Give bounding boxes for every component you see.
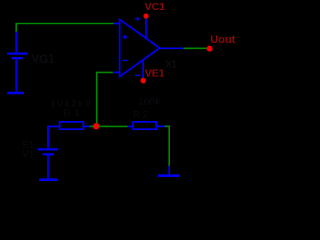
ground (VG1) [7, 92, 24, 95]
terminal VC1 [143, 13, 148, 18]
svg-text:X1: X1 [165, 59, 178, 70]
ground (E1) [39, 178, 57, 181]
resistor R1 [50, 122, 90, 129]
junction node [93, 123, 99, 129]
terminal VE1 [140, 78, 146, 84]
op-amp X1 [113, 17, 184, 78]
svg-text:VG1: VG1 [32, 54, 56, 66]
wire ground stub (R2) [168, 166, 170, 175]
wire non-inverting input net [16, 24, 114, 32]
svg-text:VE1: VE1 [145, 68, 165, 80]
ground (R2) [158, 174, 180, 177]
svg-text:V1: V1 [23, 150, 35, 161]
svg-text:100k: 100k [138, 96, 160, 107]
terminal Uout [207, 46, 213, 52]
battery E1 [38, 127, 58, 178]
wire R1 to junction [90, 125, 94, 127]
wire battery E1 to R1 [48, 126, 51, 146]
resistor R2 [128, 122, 165, 129]
wire output net [183, 47, 206, 49]
wire inverting input net [97, 72, 113, 123]
voltage source VG1 [7, 32, 28, 92]
wire R2 to ground [165, 126, 170, 166]
svg-text:VC1: VC1 [145, 1, 166, 13]
svg-text:Uout: Uout [210, 34, 235, 46]
wire junction to R2 [99, 125, 128, 127]
